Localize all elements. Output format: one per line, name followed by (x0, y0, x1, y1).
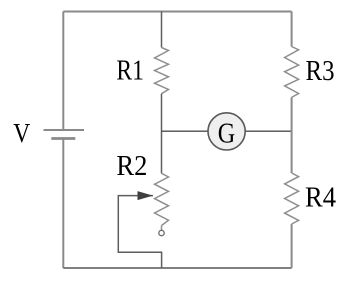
svg-text:V: V (13, 118, 30, 148)
wire node B to galvanometer (162, 130, 209, 132)
galvanometer G circle (208, 113, 245, 150)
battery V long plate (+) (44, 129, 85, 131)
svg-text:R2: R2 (116, 151, 147, 182)
R2 wiper arrowhead (138, 191, 154, 200)
resistor R2 (rheostat body) (155, 173, 169, 225)
svg-text:R4: R4 (305, 183, 336, 214)
wire left lower (V- lead) (62, 139, 64, 269)
wire galvanometer to node C (245, 130, 291, 132)
R2 bottom stub (161, 226, 163, 231)
R2 wiper arrow wire (118, 196, 161, 268)
svg-text:G: G (218, 118, 236, 149)
resistor R1 (155, 48, 169, 94)
R2 open terminal circle (159, 230, 164, 235)
wire middle branch upper (top node to R1) (161, 12, 163, 48)
battery V short plate (-) (51, 137, 75, 140)
wire right branch lower (R4 to bottom node) (291, 224, 293, 268)
wire middle branch mid (R1 to R2 through node B) (161, 94, 163, 174)
wire right branch upper (top node to R3) (291, 12, 293, 47)
resistor R4 (285, 173, 299, 224)
svg-text:R1: R1 (116, 56, 143, 87)
wire bottom (63, 267, 291, 269)
wire top (node between V+, R1, R3) (63, 11, 291, 13)
wire left upper (V+ lead) (62, 12, 64, 130)
wire right branch mid (R3 to R4 through node C) (291, 97, 293, 173)
svg-text:R3: R3 (306, 56, 335, 87)
resistor R3 (285, 47, 299, 98)
